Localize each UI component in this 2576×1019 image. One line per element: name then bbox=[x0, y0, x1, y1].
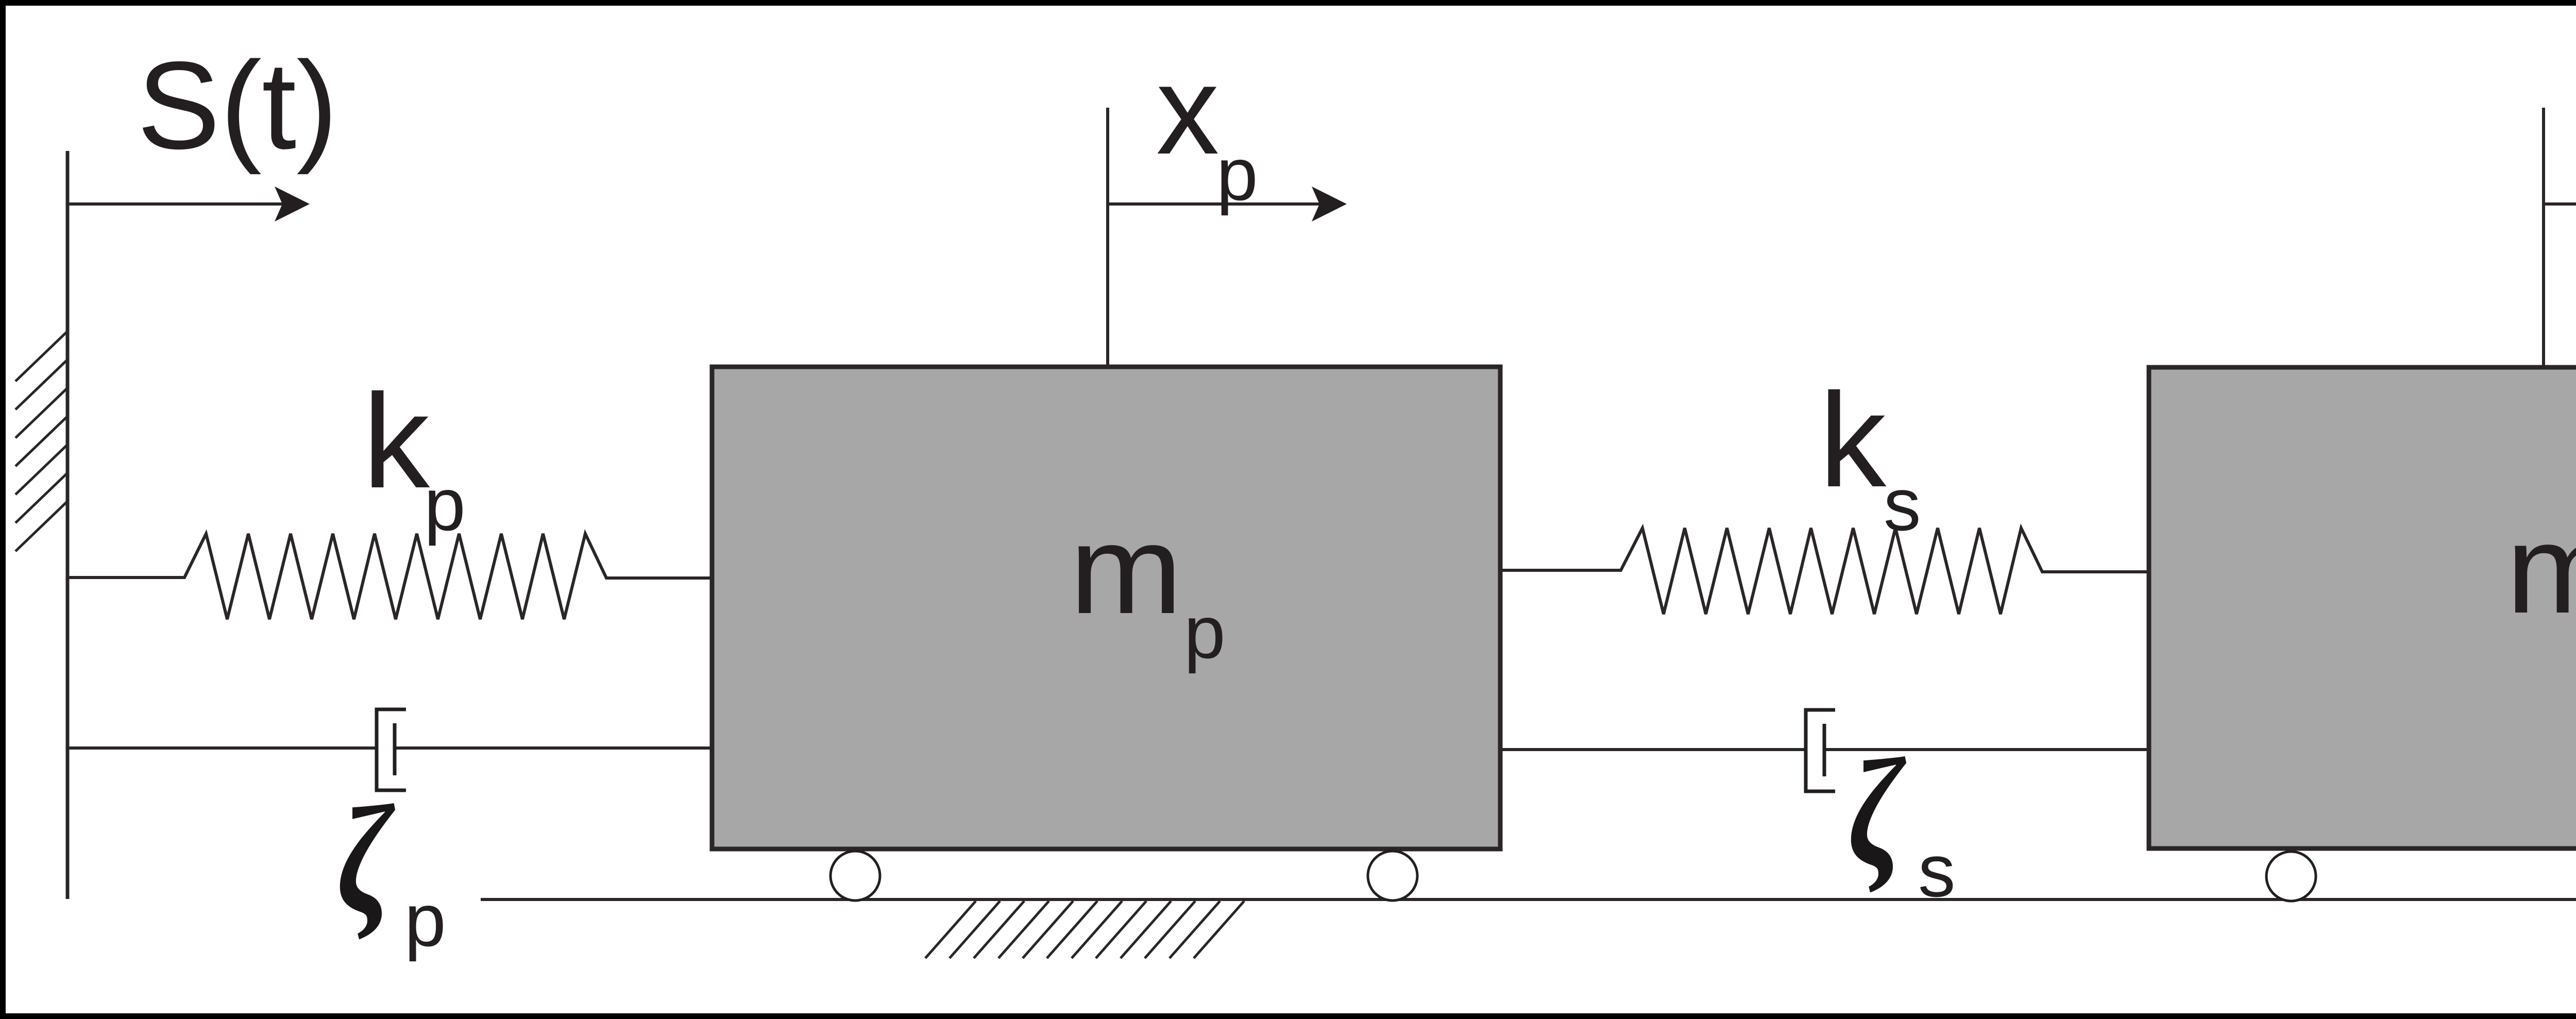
ground hatching under mp bbox=[925, 901, 1244, 958]
roller 1 under mp bbox=[831, 851, 880, 901]
xs reference stem bbox=[2542, 108, 2545, 367]
roller 2 under mp bbox=[1368, 851, 1417, 901]
svg-text:p: p bbox=[1184, 590, 1226, 674]
damper s line (right segment) bbox=[1824, 748, 2149, 751]
svg-text:p: p bbox=[404, 878, 446, 962]
svg-text:k: k bbox=[363, 367, 432, 516]
spring kp bbox=[67, 534, 712, 619]
damper s piston bbox=[1823, 724, 1826, 776]
svg-text:ζ: ζ bbox=[1848, 727, 1908, 898]
damper p line (left segment) bbox=[67, 746, 376, 750]
damper p cylinder bracket bbox=[377, 709, 406, 790]
wall hatching bbox=[15, 331, 67, 551]
svg-text:k: k bbox=[1819, 366, 1888, 515]
ground line bbox=[481, 898, 2576, 901]
spring ks bbox=[1500, 528, 2149, 614]
damper p line (right segment) bbox=[395, 746, 712, 750]
mass ms bbox=[2149, 367, 2576, 848]
svg-text:S(t): S(t) bbox=[137, 36, 338, 175]
svg-text:ζ: ζ bbox=[337, 774, 397, 945]
mass mp bbox=[712, 367, 1500, 849]
svg-text:m: m bbox=[2506, 499, 2576, 639]
svg-text:p: p bbox=[1216, 132, 1258, 216]
wall line (left fixed support) bbox=[66, 151, 70, 899]
damper s cylinder bracket bbox=[1806, 710, 1835, 791]
damper s line (left segment) bbox=[1500, 748, 1805, 751]
damper p piston bbox=[393, 723, 397, 775]
svg-text:s: s bbox=[1884, 463, 1921, 546]
svg-text:x: x bbox=[1156, 39, 1219, 180]
S(t) arrow bbox=[67, 186, 310, 222]
xp reference stem bbox=[1106, 108, 1109, 367]
svg-text:p: p bbox=[424, 463, 466, 546]
xp arrow bbox=[1108, 202, 1322, 206]
svg-text:m: m bbox=[1070, 499, 1183, 640]
roller 3 under ms bbox=[2266, 852, 2316, 901]
xs arrow bbox=[2544, 202, 2576, 206]
